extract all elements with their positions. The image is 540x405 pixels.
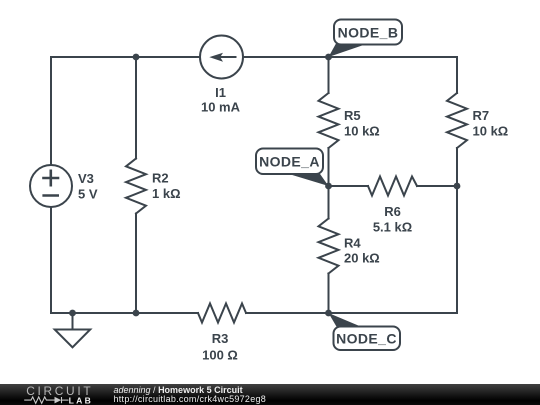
CircuitLab logo (0, 384, 110, 405)
wire R4 top stub (328, 186, 330, 219)
wire R4 bottom stub (328, 274, 330, 314)
svg-text:R7: R7 (473, 108, 490, 123)
svg-text:R6: R6 (384, 204, 401, 219)
footer bar (0, 384, 540, 405)
current source I1 (200, 36, 243, 79)
svg-text:5 V: 5 V (78, 187, 98, 202)
wire left rail lower (50, 207, 52, 313)
node A label NODE_A (256, 149, 323, 175)
svg-text:20 kΩ: 20 kΩ (344, 251, 380, 266)
voltage source V3 (30, 165, 72, 207)
resistor R5 (319, 93, 339, 148)
footer title text (114, 386, 243, 396)
node junction dot R2 bottom (133, 310, 140, 317)
current source I1 arrowhead (209, 53, 223, 62)
node A callout wedge (284, 173, 329, 187)
node C callout wedge (329, 313, 364, 328)
node junction dot R6 right (454, 183, 461, 190)
wire bottom-right horizontal (246, 312, 457, 314)
ground (72, 313, 74, 330)
resistor R2 (126, 159, 146, 214)
svg-text:LAB: LAB (69, 395, 94, 405)
node junction dot top-left (133, 54, 140, 61)
svg-text:I1: I1 (215, 85, 226, 100)
node C junction dot (325, 310, 332, 317)
svg-text:NODE_A: NODE_A (259, 154, 320, 170)
footer url text (114, 395, 267, 405)
svg-text:NODE_B: NODE_B (338, 25, 399, 41)
svg-text:10 kΩ: 10 kΩ (344, 124, 380, 139)
svg-text:R4: R4 (344, 236, 361, 251)
svg-text:100 Ω: 100 Ω (202, 348, 238, 363)
resistor R3 (198, 304, 246, 323)
wire R6 right stub (417, 185, 457, 187)
node B label NODE_B (334, 20, 402, 45)
node C label NODE_C (334, 327, 401, 351)
node B junction dot (325, 54, 332, 61)
svg-text:NODE_C: NODE_C (336, 331, 397, 347)
wire left rail upper (50, 57, 52, 165)
wire R5 bottom stub (328, 148, 330, 186)
wire right rail lower (456, 148, 458, 313)
node junction dot ground (69, 310, 76, 317)
svg-text:R5: R5 (344, 108, 361, 123)
wire R2 bottom stub (135, 214, 137, 314)
wire top-right horizontal (243, 56, 457, 58)
svg-text:R2: R2 (152, 171, 169, 186)
wire R6 left stub (329, 185, 369, 187)
resistor R7 (447, 93, 467, 148)
svg-text:V3: V3 (78, 171, 94, 186)
svg-text:10 kΩ: 10 kΩ (473, 124, 509, 139)
resistor R6 (368, 177, 417, 196)
wire R5 top stub (328, 57, 330, 93)
wire top-left horizontal (51, 56, 200, 58)
node A junction dot (325, 183, 332, 190)
wire bottom-left horizontal (51, 312, 198, 314)
wire R2 top stub (135, 57, 137, 159)
svg-text:R3: R3 (212, 331, 229, 346)
wire right rail upper (456, 57, 458, 93)
node B callout wedge (329, 44, 366, 58)
svg-text:10 mA: 10 mA (201, 100, 241, 115)
resistor R4 (319, 219, 339, 274)
svg-text:1 kΩ: 1 kΩ (152, 186, 181, 201)
svg-text:5.1 kΩ: 5.1 kΩ (373, 220, 412, 235)
